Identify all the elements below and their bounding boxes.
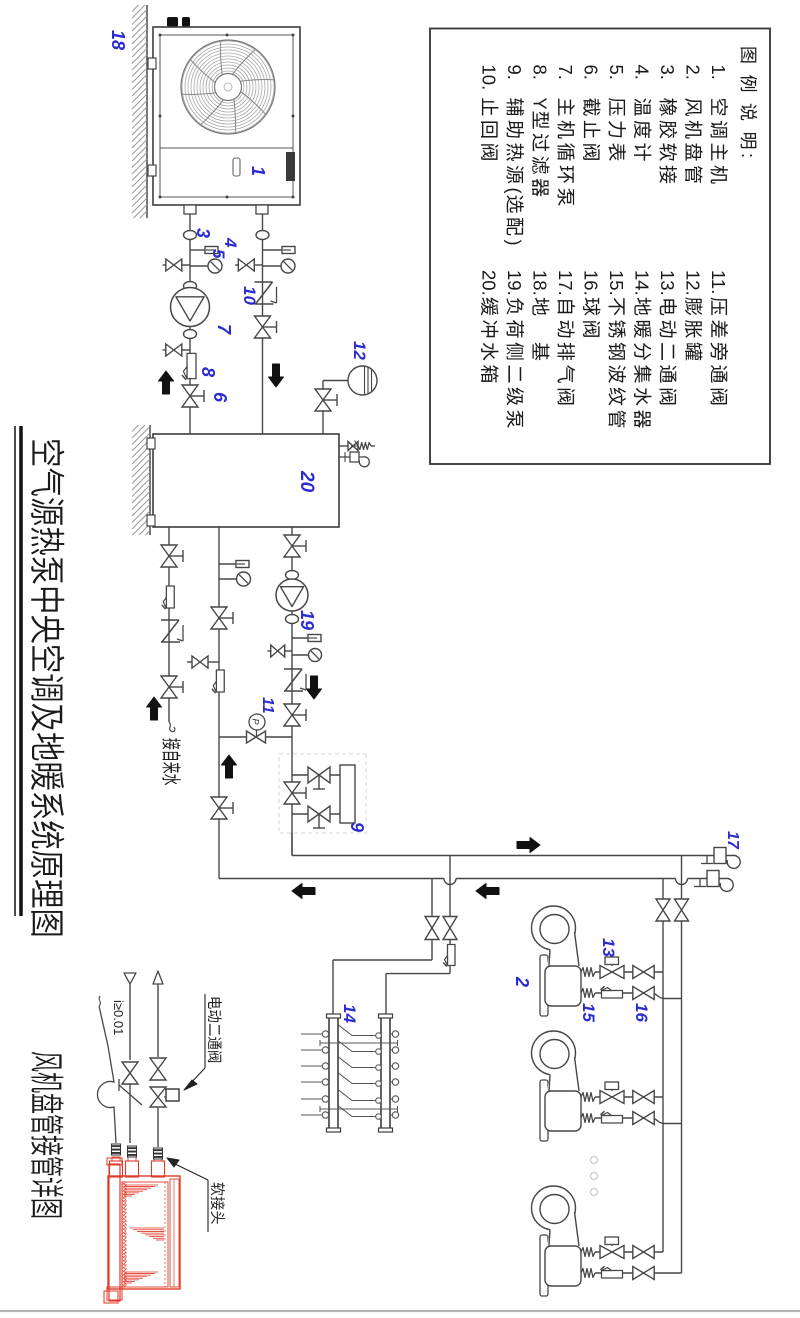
svg-text:8.: 8.: [530, 65, 551, 80]
svg-text:5: 5: [209, 249, 228, 259]
svg-text:7.: 7.: [555, 65, 576, 80]
svg-text:6.: 6.: [581, 65, 602, 80]
svg-text:4.: 4.: [632, 65, 653, 80]
svg-text:17.: 17.: [555, 270, 576, 296]
svg-text:(: (: [504, 188, 524, 194]
svg-text:18.: 18.: [530, 270, 551, 296]
svg-text:13: 13: [599, 938, 618, 957]
svg-text:16: 16: [632, 1003, 651, 1022]
svg-text:1.: 1.: [708, 65, 729, 80]
svg-text:8: 8: [198, 367, 218, 377]
svg-text:2: 2: [512, 976, 532, 987]
svg-text:10: 10: [240, 286, 259, 305]
svg-text:3: 3: [193, 228, 213, 238]
svg-text:Y: Y: [530, 98, 550, 110]
svg-text:5.: 5.: [606, 65, 627, 80]
svg-text:7: 7: [214, 324, 234, 335]
svg-text:19.: 19.: [504, 270, 525, 296]
svg-text:9.: 9.: [504, 65, 525, 80]
svg-text:12.: 12.: [683, 270, 704, 296]
svg-text:20.: 20.: [479, 270, 500, 296]
svg-text:1: 1: [248, 166, 268, 176]
svg-text:16.: 16.: [581, 270, 602, 296]
svg-text:10.: 10.: [479, 65, 500, 91]
svg-text:15: 15: [579, 1003, 598, 1022]
svg-text:19: 19: [297, 610, 317, 630]
svg-text:3.: 3.: [657, 65, 678, 80]
svg-text:17: 17: [724, 831, 741, 850]
svg-text:15.: 15.: [606, 270, 627, 296]
svg-text::: :: [738, 153, 758, 158]
svg-text:12: 12: [350, 341, 369, 360]
svg-text:6: 6: [210, 392, 230, 403]
svg-text:9: 9: [347, 822, 367, 832]
svg-text:2.: 2.: [683, 65, 704, 80]
svg-text:i≥0.01: i≥0.01: [111, 1000, 126, 1035]
svg-text:11.: 11.: [708, 270, 729, 294]
svg-text:11: 11: [259, 697, 276, 714]
svg-text:20: 20: [296, 470, 317, 493]
svg-text:18: 18: [108, 30, 128, 50]
svg-text:14.: 14.: [632, 270, 653, 296]
svg-text:14: 14: [340, 1004, 359, 1023]
svg-text:): ): [504, 240, 524, 246]
svg-text:13.: 13.: [657, 270, 678, 296]
svg-text:4: 4: [221, 237, 240, 248]
svg-text:P: P: [251, 719, 261, 725]
